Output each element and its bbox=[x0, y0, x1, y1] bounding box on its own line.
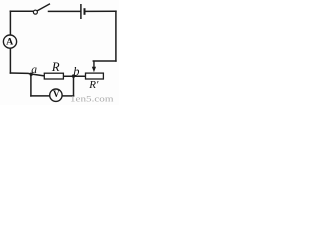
wire slider arm horizontal bbox=[93, 60, 116, 62]
ammeter A bbox=[3, 35, 16, 48]
svg-text:V: V bbox=[53, 89, 60, 99]
wire battery to top-right corner bbox=[85, 10, 116, 12]
wire top-left horizontal bbox=[10, 10, 33, 12]
svg-text:R′: R′ bbox=[88, 79, 99, 91]
switch blade bbox=[37, 4, 50, 11]
wire voltmeter branch left vertical bbox=[30, 74, 32, 96]
wire bottom-left run corner to node a bbox=[10, 73, 44, 76]
wire voltmeter branch bottom left bbox=[31, 95, 50, 97]
rheostat R' box bbox=[86, 73, 104, 79]
svg-text:1en5.com: 1en5.com bbox=[70, 94, 114, 104]
resistor R box bbox=[44, 73, 63, 79]
svg-text:a: a bbox=[31, 63, 37, 76]
rheostat slider arrow shaft bbox=[93, 61, 95, 67]
svg-text:A: A bbox=[6, 37, 13, 48]
wire left vertical lower bbox=[9, 48, 11, 73]
battery short plate bbox=[84, 8, 86, 15]
wire voltmeter branch right vertical bbox=[73, 76, 75, 96]
wire left vertical upper bbox=[9, 11, 11, 35]
rheostat slider arrowhead bbox=[92, 67, 96, 73]
wire resistor to node b to rheostat bbox=[63, 75, 85, 77]
wire switch to battery bbox=[49, 10, 81, 12]
voltmeter V bbox=[50, 89, 62, 101]
wire right vertical bbox=[115, 11, 117, 61]
switch S pivot bbox=[33, 10, 37, 14]
node a dot bbox=[30, 73, 33, 76]
battery long plate bbox=[80, 4, 82, 19]
svg-text:b: b bbox=[73, 65, 79, 79]
background bbox=[0, 0, 119, 105]
wire voltmeter branch bottom right bbox=[62, 95, 74, 97]
node b dot bbox=[72, 74, 75, 77]
svg-text:R: R bbox=[51, 60, 60, 74]
